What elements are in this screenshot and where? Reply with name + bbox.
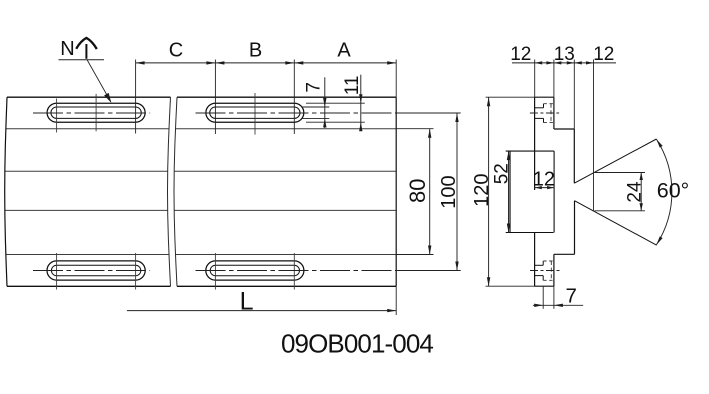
- top hole counterbore upper: [535, 107, 544, 109]
- svg-text:09OB001-004: 09OB001-004: [281, 329, 433, 359]
- centerline top slots right piece: [196, 112, 397, 114]
- arrow 7 bottom: [323, 118, 326, 127]
- label N underline: [59, 59, 105, 61]
- arrow 24 bottom: [640, 203, 643, 211]
- svg-text:60°: 60°: [657, 179, 690, 203]
- section left edge lower: [534, 233, 536, 287]
- dimension line 12-13-12: [512, 62, 616, 64]
- slotted hole S3 inner: [51, 265, 140, 275]
- section mid-block right face: [553, 151, 555, 232]
- extension line x=135.6: [135, 60, 137, 134]
- label 24: [624, 181, 645, 203]
- arrow 120 top: [487, 97, 490, 106]
- arrow C right: [206, 61, 215, 64]
- dimension line 11: [360, 75, 362, 127]
- symbol caret stem: [85, 44, 87, 59]
- arrow 52 top: [507, 151, 510, 160]
- label B: [249, 40, 262, 62]
- label 120: [471, 174, 493, 207]
- extension line y=122.2: [306, 121, 365, 123]
- arrow 7b left: [534, 304, 543, 307]
- wire plate bottom edge (right segment): [177, 285, 396, 287]
- slot centre mark x=56.6 top: [56, 99, 58, 133]
- bottom hole centerline: [530, 270, 560, 272]
- slot centre mark x=135.6 bottom: [135, 253, 137, 290]
- wire plate inner line upper (left segment): [6, 128, 169, 130]
- arrow 100 top: [455, 113, 458, 122]
- bottom hole hidden right: [550, 261, 552, 280]
- wire plate groove line upper (left segment): [5, 170, 168, 172]
- section mid-block left face: [509, 151, 511, 232]
- svg-text:13: 13: [554, 44, 575, 65]
- arrow 12-13-12 at 574.3 rot0: [567, 61, 575, 64]
- arrow 12-13-12 at 534.7 rot180: [535, 61, 543, 64]
- svg-text:12: 12: [510, 44, 531, 65]
- arrow 12-13-12 at 593.5 rot0: [586, 61, 594, 64]
- svg-text:12: 12: [593, 44, 614, 65]
- label 7 slot: [304, 82, 325, 93]
- extension line y=103.2: [306, 102, 365, 104]
- arrow 52 bottom: [507, 224, 510, 233]
- section step lower: [554, 253, 575, 255]
- slot centre mark x=215.4 bottom: [214, 253, 216, 290]
- arrow 80 bottom: [428, 246, 431, 255]
- section right face lower: [574, 201, 576, 255]
- dimension line 80: [429, 129, 431, 255]
- break line right piece: [174, 97, 177, 286]
- slot centre mark x=96.1 top: [95, 94, 97, 131]
- slotted hole S4 outer: [206, 261, 304, 280]
- label 11: [342, 76, 363, 96]
- label 100: [438, 175, 460, 208]
- svg-text:N: N: [60, 38, 74, 60]
- extension y=210.8: [595, 210, 645, 212]
- top hole stub upper: [543, 104, 545, 108]
- arrow arc bottom: [655, 236, 663, 245]
- plate right edge: [395, 97, 397, 286]
- arrow B right: [285, 61, 294, 64]
- section V upper edge: [574, 139, 656, 183]
- arrow 12-13-12 at 553.9 rot180: [554, 61, 562, 64]
- label 12 right: [593, 44, 614, 65]
- svg-text:80: 80: [405, 179, 430, 203]
- wire plate inner line lower (right segment): [175, 254, 396, 256]
- dimension line L: [127, 310, 396, 312]
- bottom hole counterbore upper: [535, 264, 543, 266]
- svg-text:A: A: [337, 40, 351, 62]
- svg-text:12: 12: [533, 169, 555, 191]
- wire plate groove line upper (right segment): [174, 170, 396, 172]
- bottom hole hidden bottom: [543, 279, 553, 281]
- arrow 24 top: [640, 173, 643, 181]
- extension line x=396.2 down: [395, 286, 397, 315]
- centerline extension to 100-dim bottom: [396, 270, 461, 272]
- extension y=286.2 left: [486, 285, 535, 287]
- arrow 11 top: [359, 94, 362, 103]
- arrow 12 inner right: [547, 186, 554, 189]
- label A: [337, 40, 351, 62]
- left broken edge of plate: [5, 97, 7, 286]
- extension x=543.2 bottom: [542, 286, 544, 309]
- label 52: [491, 163, 512, 184]
- top hole hidden right: [550, 104, 552, 123]
- label N: [60, 38, 74, 60]
- dimension line 7 bottom: [533, 304, 583, 306]
- svg-text:11: 11: [342, 76, 363, 96]
- extension x=534.7 top: [534, 60, 536, 98]
- angle arc 60deg: [656, 139, 672, 245]
- arrow 12 inner left: [535, 186, 542, 189]
- extension x=593.5 top: [593, 60, 595, 211]
- extension line y=254.5 right: [396, 254, 433, 256]
- arrow 7b right: [554, 304, 563, 307]
- top hole centerline: [530, 112, 559, 114]
- wire plate groove line lower (left segment): [5, 209, 168, 211]
- label 13: [554, 44, 575, 65]
- label 12 left: [510, 44, 531, 65]
- slotted hole S4 inner: [210, 265, 299, 275]
- symbol caret: [76, 38, 97, 49]
- arrow 12-13-12 at 574.3 rot180: [574, 61, 582, 64]
- section bottom face: [535, 285, 554, 287]
- slotted hole S2 inner: [210, 107, 300, 118]
- section mid-block bottom face: [506, 232, 554, 234]
- bottom hole stub upper: [542, 261, 544, 265]
- extension y=172.5: [594, 172, 646, 174]
- section bottom tab right face: [553, 254, 555, 286]
- centerline bottom slots left piece: [33, 270, 150, 272]
- bottom hole stub lower: [542, 276, 544, 281]
- slot centre mark x=255 top: [254, 93, 256, 135]
- arrow 120 bottom: [487, 277, 490, 286]
- svg-text:52: 52: [491, 163, 512, 184]
- arrow arc top: [655, 138, 663, 147]
- extension line x=215.4: [214, 60, 216, 135]
- svg-text:120: 120: [471, 174, 493, 207]
- top hole stub lower: [543, 118, 545, 122]
- break line left piece: [168, 97, 171, 286]
- extension line y=128.7 right: [396, 128, 433, 130]
- label C: [169, 40, 183, 62]
- centerline bottom slots right piece: [196, 270, 397, 272]
- arrow C left: [136, 61, 145, 64]
- top hole hidden bottom: [544, 122, 554, 124]
- arrow A left: [294, 61, 303, 64]
- extension line y=107: [302, 106, 329, 108]
- dimension line 12 inner: [535, 187, 554, 189]
- slotted hole S3 outer: [47, 261, 145, 280]
- slotted hole S2 outer: [206, 103, 304, 122]
- wire plate groove line lower (right segment): [174, 209, 396, 211]
- slot centre mark x=56.6 bottom: [56, 253, 58, 290]
- svg-text:B: B: [249, 40, 262, 62]
- extension y=97.2 left: [486, 96, 535, 98]
- svg-text:100: 100: [438, 175, 460, 208]
- dimension line 100: [456, 113, 458, 271]
- section mid-block top face: [506, 150, 554, 152]
- dimension line 120: [488, 97, 490, 286]
- arrow A right: [387, 61, 396, 64]
- svg-text:L: L: [240, 287, 254, 315]
- arrow 11 bottom: [359, 122, 362, 131]
- section right face upper: [573, 129, 575, 183]
- extension x=553.9 bottom: [553, 286, 555, 309]
- section step upper: [554, 128, 574, 130]
- label 12 inner: [533, 169, 555, 191]
- svg-text:C: C: [169, 40, 183, 62]
- centerline extension to 100-dim top: [396, 112, 461, 114]
- leader line N: [87, 60, 111, 102]
- extension line x=396.2 up: [395, 60, 397, 98]
- dimension line 24: [640, 173, 642, 211]
- label 80: [405, 179, 430, 203]
- section top face: [535, 96, 554, 98]
- extension line x=294.3: [293, 60, 295, 135]
- arrow 7 top: [323, 98, 326, 107]
- section top tab right face: [553, 97, 555, 129]
- extension line y=118.4: [302, 117, 329, 119]
- extension x=574.3 top: [573, 60, 575, 130]
- section left edge upper: [534, 97, 536, 190]
- bottom hole counterbore lower: [535, 275, 543, 277]
- top hole hidden top: [544, 103, 554, 105]
- slotted hole S1 outer: [47, 103, 145, 122]
- arrow 12-13-12 at 553.9 rot0: [546, 61, 554, 64]
- label 60deg: [657, 179, 690, 203]
- dimension line 52: [508, 151, 510, 232]
- svg-text:7: 7: [565, 285, 576, 308]
- slot centre mark x=294.3 bottom: [293, 253, 295, 290]
- top hole counterbore lower: [535, 117, 544, 119]
- wire plate top edge (left segment): [7, 96, 171, 98]
- bottom hole hidden top: [543, 260, 553, 262]
- svg-text:7: 7: [304, 82, 325, 93]
- arrow L right: [387, 309, 396, 312]
- arrow 80 top: [428, 129, 431, 138]
- arrow B left: [215, 61, 224, 64]
- extension x=553.9 top: [553, 60, 555, 98]
- wire plate top edge (right segment): [177, 96, 396, 98]
- section V lower edge: [575, 201, 657, 246]
- wire plate inner line lower (left segment): [6, 254, 169, 256]
- svg-text:24: 24: [624, 181, 645, 203]
- dimension line C-B-A: [136, 62, 397, 64]
- wire plate bottom edge (left segment): [7, 285, 171, 287]
- dimension line 7: [324, 77, 326, 128]
- arrow 100 bottom: [455, 262, 458, 271]
- caption 09OB001-004: [281, 329, 433, 359]
- slotted hole S1 inner: [51, 107, 141, 118]
- leader arrowhead: [104, 93, 113, 104]
- centerline top slots left piece: [33, 112, 150, 114]
- wire plate inner line upper (right segment): [176, 128, 397, 130]
- label L: [240, 287, 254, 315]
- label 7 bottom: [565, 285, 576, 308]
